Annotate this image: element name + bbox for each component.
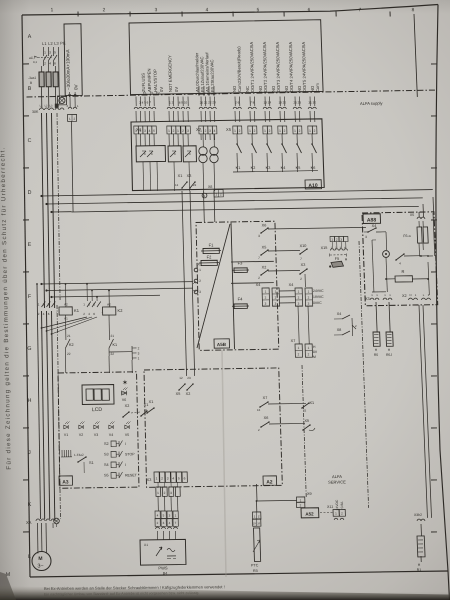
svg-text:1: 1 (254, 514, 256, 518)
svg-text:Für diese Zeichnung gelten die: Für diese Zeichnung gelten die Bestimmun… (0, 146, 13, 469)
svg-text:V3: V3 (94, 433, 98, 437)
svg-text:LCD: LCD (92, 407, 103, 413)
svg-text:2: 2 (265, 296, 267, 300)
svg-text:A2: A2 (266, 479, 273, 485)
svg-text:Com230V/Bereit(Ready): Com230V/Bereit(Ready) (236, 46, 242, 92)
svg-text:X8: X8 (208, 185, 212, 189)
svg-text:1: 1 (51, 7, 54, 13)
svg-text:1: 1 (298, 290, 300, 294)
svg-text:X6: X6 (264, 416, 269, 420)
svg-text:3: 3 (365, 235, 367, 239)
svg-text:32: 32 (303, 408, 307, 412)
svg-text:K1: K1 (74, 308, 80, 313)
svg-text:1: 1 (389, 293, 391, 297)
svg-text:ALFA: ALFA (332, 474, 342, 479)
svg-text:F1: F1 (209, 242, 215, 247)
svg-text:0VAC: 0VAC (313, 301, 322, 305)
svg-text:1: 1 (279, 129, 281, 133)
svg-text:L: L (423, 293, 425, 297)
svg-text:1: 1 (44, 50, 46, 54)
svg-text:K2: K2 (117, 308, 123, 313)
svg-text:X3b2: X3b2 (414, 513, 422, 517)
svg-text:1: 1 (308, 290, 310, 294)
svg-text:X2: X2 (402, 294, 407, 298)
svg-text:R5J: R5J (386, 353, 392, 357)
svg-text:5: 5 (163, 513, 165, 517)
svg-text:2: 2 (254, 129, 256, 133)
svg-text:X2: X2 (125, 404, 130, 408)
svg-text:B: B (30, 81, 33, 85)
svg-text:22: 22 (110, 352, 114, 356)
svg-text:2: 2 (299, 129, 301, 133)
svg-text:Com: Com (315, 83, 320, 92)
svg-text:V4: V4 (109, 433, 113, 437)
svg-text:X10: X10 (300, 244, 307, 248)
svg-text:31 32: 31 32 (308, 100, 316, 104)
svg-text:1 2: 1 2 (169, 100, 174, 104)
svg-text:6: 6 (308, 7, 311, 13)
svg-text:3: 3 (170, 491, 172, 495)
svg-text:E2: E2 (156, 91, 160, 95)
svg-text:1: 1 (249, 129, 251, 133)
svg-text:E1: E1 (150, 91, 154, 95)
svg-text:K4: K4 (281, 166, 286, 170)
svg-text:✶: ✶ (122, 378, 128, 387)
svg-text:A10: A10 (308, 183, 318, 189)
svg-text:8: 8 (412, 7, 415, 13)
svg-text:12: 12 (179, 376, 183, 380)
svg-text:1: 1 (77, 104, 79, 108)
svg-text:4: 4 (169, 521, 171, 525)
svg-text:H: H (313, 345, 316, 349)
svg-text:H: H (375, 348, 378, 352)
svg-text:X7: X7 (263, 396, 268, 400)
svg-text:ABPUMPEN: ABPUMPEN (147, 68, 152, 92)
svg-text:1: 1 (38, 302, 40, 306)
svg-text:6: 6 (48, 312, 50, 316)
svg-text:1: 1 (371, 293, 373, 297)
svg-text:24VAC: 24VAC (313, 289, 324, 293)
svg-text:L1: L1 (40, 104, 43, 107)
svg-text:1: 1 (335, 511, 337, 515)
svg-text:X3: X3 (147, 478, 152, 482)
svg-text:D: D (27, 190, 31, 196)
svg-text:22: 22 (193, 183, 197, 187)
svg-text:X3: X3 (365, 297, 370, 301)
svg-text:3: 3 (144, 129, 146, 133)
svg-text:12: 12 (175, 183, 179, 187)
svg-text:25 26: 25 26 (293, 100, 301, 104)
svg-text:6: 6 (93, 312, 95, 316)
svg-text:B: B (28, 86, 32, 92)
svg-text:PTC: PTC (251, 563, 259, 567)
svg-text:X7: X7 (291, 339, 296, 343)
svg-text:X9: X9 (307, 492, 312, 496)
svg-text:1: 1 (168, 129, 170, 133)
svg-text:7: 7 (175, 521, 177, 525)
svg-text:7: 7 (300, 257, 302, 261)
svg-text:L1 L2 L3 PE: L1 L2 L3 PE (42, 41, 66, 46)
svg-text:X4: X4 (256, 283, 261, 287)
svg-text:R3: R3 (253, 569, 258, 573)
svg-text:1: 1 (69, 117, 71, 121)
svg-text:2: 2 (73, 117, 75, 121)
svg-text:K1: K1 (236, 166, 241, 170)
svg-text:4: 4 (149, 129, 151, 133)
svg-text:1: 1 (264, 129, 266, 133)
svg-text:2: 2 (199, 279, 201, 283)
svg-text:19: 19 (253, 522, 256, 525)
svg-text:A52: A52 (305, 511, 314, 516)
svg-text:0V: 0V (313, 350, 318, 354)
svg-text:2 6: 2 6 (235, 100, 240, 104)
svg-text:2: 2 (66, 104, 68, 108)
svg-text:0.8A: 0.8A (340, 501, 344, 509)
svg-text:4: 4 (43, 312, 45, 316)
svg-text:4: 4 (88, 312, 90, 316)
svg-text:20: 20 (257, 522, 260, 525)
svg-text:5: 5 (257, 7, 260, 13)
svg-text:E1: E1 (143, 91, 147, 95)
svg-text:3: 3 (298, 302, 300, 306)
svg-text:A88: A88 (367, 217, 377, 223)
svg-text:X5: X5 (262, 245, 267, 249)
svg-text:3: 3 (209, 129, 211, 133)
svg-text:F2: F2 (207, 254, 213, 259)
svg-text:X2: X2 (186, 392, 191, 396)
svg-text:4: 4 (157, 513, 159, 517)
svg-text:STOP: STOP (125, 452, 135, 456)
svg-text:ALFA supply: ALFA supply (360, 101, 384, 106)
svg-text:23: 23 (187, 376, 191, 380)
svg-text:SERVICE: SERVICE (328, 479, 346, 484)
svg-text:7: 7 (258, 256, 260, 260)
svg-text:HALT/STOP: HALT/STOP (153, 69, 158, 92)
svg-text:I: I (125, 442, 126, 446)
svg-text:NOT EMERGENCY: NOT EMERGENCY (167, 55, 173, 92)
svg-text:F4: F4 (238, 296, 244, 301)
svg-text:3: 3 (49, 50, 51, 54)
svg-text:2: 2 (341, 511, 343, 515)
svg-text:6: 6 (54, 61, 56, 65)
svg-text:X5: X5 (410, 213, 414, 217)
svg-text:2: 2 (300, 503, 302, 507)
svg-text:3: 3 (265, 302, 267, 306)
svg-text:ZUFLUSS: ZUFLUSS (141, 73, 146, 92)
svg-text:S3: S3 (104, 452, 109, 456)
svg-text:2: 2 (298, 296, 300, 300)
svg-text:1-F4a2: 1-F4a2 (74, 453, 84, 457)
svg-text:2: 2 (258, 276, 260, 280)
svg-text:2: 2 (140, 129, 142, 133)
svg-text:C: C (27, 138, 31, 144)
svg-text:K2: K2 (251, 166, 256, 170)
svg-text:M: M (313, 355, 316, 359)
svg-text:20 21 22 23: 20 21 22 23 (200, 100, 216, 104)
svg-text:K: K (189, 152, 191, 156)
svg-text:2: 2 (258, 514, 260, 518)
svg-text:21: 21 (67, 334, 71, 338)
svg-text:7: 7 (359, 7, 362, 13)
svg-text:K: K (28, 502, 32, 508)
svg-text:B4: B4 (163, 571, 167, 575)
svg-text:I: I (125, 463, 126, 467)
svg-text:2: 2 (308, 296, 310, 300)
svg-text:S5: S5 (104, 473, 109, 477)
svg-text:XA: XA (26, 520, 32, 525)
svg-text:1: 1 (199, 268, 201, 272)
svg-text:S1: S1 (89, 461, 94, 465)
svg-text:2: 2 (308, 352, 310, 356)
svg-text:2: 2 (300, 277, 302, 281)
svg-text:2: 2 (83, 312, 85, 316)
svg-text:X5: X5 (304, 419, 309, 423)
svg-text:X5: X5 (226, 127, 232, 132)
svg-text:1: 1 (265, 290, 267, 294)
svg-text:X15: X15 (321, 246, 328, 250)
svg-text:4: 4 (172, 476, 174, 480)
svg-text:0V: 0V (174, 87, 179, 92)
svg-text:1: 1 (294, 129, 296, 133)
svg-text:H: H (345, 257, 348, 261)
svg-text:A1: A1 (64, 316, 68, 320)
svg-text:2: 2 (355, 324, 357, 328)
svg-text:2: 2 (164, 491, 166, 495)
svg-text:R: R (401, 269, 404, 274)
svg-text:3: 3 (155, 7, 158, 13)
svg-text:5: 5 (54, 50, 56, 54)
svg-text:1: 1 (234, 129, 236, 133)
svg-text:16: 16 (257, 408, 261, 412)
svg-text:1: 1 (331, 238, 333, 242)
svg-text:V5: V5 (125, 433, 129, 437)
svg-text:2: 2 (182, 129, 184, 133)
svg-text:2: 2 (275, 296, 277, 300)
svg-text:M: M (38, 556, 42, 562)
svg-text:RESET: RESET (125, 473, 138, 477)
svg-text:K2: K2 (69, 343, 74, 347)
svg-text:-3as1: -3as1 (28, 76, 36, 80)
svg-text:K: K (151, 152, 153, 156)
svg-text:X8: X8 (337, 328, 342, 332)
svg-text:F5: F5 (335, 257, 340, 261)
svg-text:7 8: 7 8 (250, 100, 255, 104)
svg-text:5: 5 (153, 129, 155, 133)
svg-text:F3: F3 (238, 260, 244, 265)
svg-text:2: 2 (138, 346, 140, 350)
svg-text:4: 4 (399, 261, 401, 265)
svg-text:2: 2 (157, 521, 159, 525)
svg-text:3: 3 (258, 234, 260, 238)
svg-text:3: 3 (340, 238, 342, 242)
svg-text:3: 3 (167, 476, 169, 480)
svg-text:3: 3 (308, 302, 310, 306)
svg-text:X1: X1 (178, 174, 183, 178)
svg-text:2: 2 (314, 129, 316, 133)
svg-text:A3: A3 (62, 479, 69, 485)
svg-text:2: 2 (38, 312, 40, 316)
svg-text:3~: 3~ (37, 563, 43, 569)
svg-text:DO/T4 24V/PA/250VAC/5A: DO/T4 24V/PA/250VAC/5A (288, 42, 294, 92)
svg-text:1: 1 (298, 346, 300, 350)
svg-text:2: 2 (269, 129, 271, 133)
svg-text:1: 1 (156, 476, 158, 480)
svg-text:N: N (409, 293, 411, 297)
svg-text:3: 3 (187, 129, 189, 133)
svg-text:4: 4 (214, 129, 216, 133)
svg-text:L3: L3 (50, 104, 53, 107)
svg-text:X2: X2 (262, 265, 267, 269)
svg-text:H: H (418, 563, 421, 567)
svg-text:5: 5 (178, 476, 180, 480)
svg-text:1: 1 (309, 129, 311, 133)
svg-text:H: H (27, 398, 31, 404)
svg-text:X4: X4 (289, 283, 294, 287)
svg-text:K6: K6 (311, 166, 316, 170)
svg-text:X1: X1 (149, 400, 154, 404)
svg-text:X4: X4 (337, 312, 342, 316)
svg-text:F6-a: F6-a (403, 234, 410, 238)
svg-text:E: E (28, 242, 32, 248)
svg-text:2: 2 (44, 61, 46, 65)
svg-text:1: 1 (376, 293, 378, 297)
svg-text:2: 2 (258, 428, 260, 432)
svg-text:V1: V1 (64, 433, 68, 437)
svg-text:V2: V2 (79, 433, 83, 437)
svg-text:X1: X1 (309, 401, 314, 405)
svg-text:6: 6 (184, 476, 186, 480)
svg-text:X3: X3 (187, 174, 192, 178)
svg-text:~30/o30mA+100mA: ~30/o30mA+100mA (65, 48, 71, 90)
svg-text:1: 1 (83, 302, 85, 306)
svg-text:F: F (28, 294, 32, 300)
svg-text:X6: X6 (262, 223, 267, 227)
svg-text:1: 1 (138, 356, 140, 360)
svg-text:0V: 0V (73, 83, 78, 90)
svg-text:4: 4 (206, 7, 209, 13)
svg-text:K3: K3 (266, 166, 271, 170)
svg-text:K: K (174, 152, 176, 156)
svg-text:3: 3 (169, 513, 171, 517)
svg-text:J: J (28, 450, 31, 456)
svg-text:DO/T1 24V/PA/250VAC/5A: DO/T1 24V/PA/250VAC/5A (249, 42, 255, 92)
svg-text:R5: R5 (374, 353, 379, 357)
svg-text:21: 21 (110, 334, 114, 338)
svg-text:1: 1 (300, 498, 302, 502)
svg-text:1: 1 (177, 129, 179, 133)
svg-text:V6: V6 (122, 398, 126, 402)
svg-text:A5B: A5B (217, 342, 227, 347)
svg-text:2: 2 (239, 129, 241, 133)
svg-text:0,1: 0,1 (33, 60, 38, 64)
svg-text:13 14: 13 14 (263, 100, 271, 104)
svg-text:S2: S2 (104, 442, 109, 446)
svg-text:3: 3 (275, 302, 277, 306)
svg-text:2: 2 (336, 238, 338, 242)
svg-text:2: 2 (103, 7, 106, 13)
svg-text:K: K (144, 152, 146, 156)
svg-text:X1: X1 (144, 543, 148, 547)
svg-text:1: 1 (200, 129, 202, 133)
svg-text:L: L (28, 554, 31, 560)
svg-text:S4: S4 (104, 463, 109, 467)
svg-text:1: 1 (384, 293, 386, 297)
svg-text:4: 4 (49, 61, 51, 65)
svg-text:DO/T2 24V/PA/250VAC/5A: DO/T2 24V/PA/250VAC/5A (262, 42, 268, 92)
svg-text:K1: K1 (112, 343, 117, 347)
svg-text:2: 2 (205, 129, 207, 133)
svg-text:X1: X1 (197, 262, 202, 266)
svg-text:K5: K5 (296, 166, 301, 170)
svg-text:3: 3 (199, 290, 201, 294)
svg-text:2: 2 (298, 352, 300, 356)
svg-text:24VDC: 24VDC (335, 499, 339, 510)
svg-text:1: 1 (135, 129, 137, 133)
svg-text:30K: 30K (32, 110, 39, 114)
svg-text:1: 1 (415, 293, 417, 297)
svg-text:X11: X11 (327, 505, 333, 509)
svg-text:G: G (27, 346, 31, 352)
svg-text:DO/T3 24V/PA/250VAC/5A: DO/T3 24V/PA/250VAC/5A (275, 42, 281, 92)
svg-text:3: 3 (138, 351, 140, 355)
svg-text:X3: X3 (301, 263, 306, 267)
svg-text:19 20: 19 20 (278, 100, 286, 104)
svg-text:3: 3 (163, 521, 165, 525)
svg-text:22: 22 (67, 352, 71, 356)
svg-text:PWS: PWS (158, 565, 168, 570)
svg-text:1: 1 (275, 290, 277, 294)
svg-text:A: A (28, 34, 32, 40)
svg-text:H: H (388, 348, 391, 352)
svg-text:2: 2 (173, 129, 175, 133)
svg-text:1: 1 (175, 513, 177, 517)
svg-text:DO/T5 24V/PA/250VAC/5A: DO/T5 24V/PA/250VAC/5A (301, 42, 307, 92)
svg-text:2: 2 (161, 476, 163, 480)
svg-text:L2: L2 (45, 104, 48, 107)
svg-text:19VAC: 19VAC (313, 295, 324, 299)
svg-text:X5: X5 (176, 392, 181, 396)
svg-text:R1: R1 (417, 568, 422, 572)
svg-text:2: 2 (284, 129, 286, 133)
svg-text:1: 1 (308, 346, 310, 350)
svg-text:1: 1 (157, 491, 159, 495)
